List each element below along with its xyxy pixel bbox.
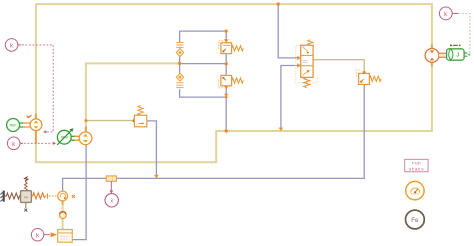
svg-text:run: run bbox=[412, 162, 421, 167]
svg-text:stats: stats bbox=[409, 166, 424, 172]
svg-text:kg: kg bbox=[24, 195, 28, 199]
svg-text:REF: REF bbox=[10, 123, 16, 127]
svg-text:Fe: Fe bbox=[411, 217, 419, 224]
